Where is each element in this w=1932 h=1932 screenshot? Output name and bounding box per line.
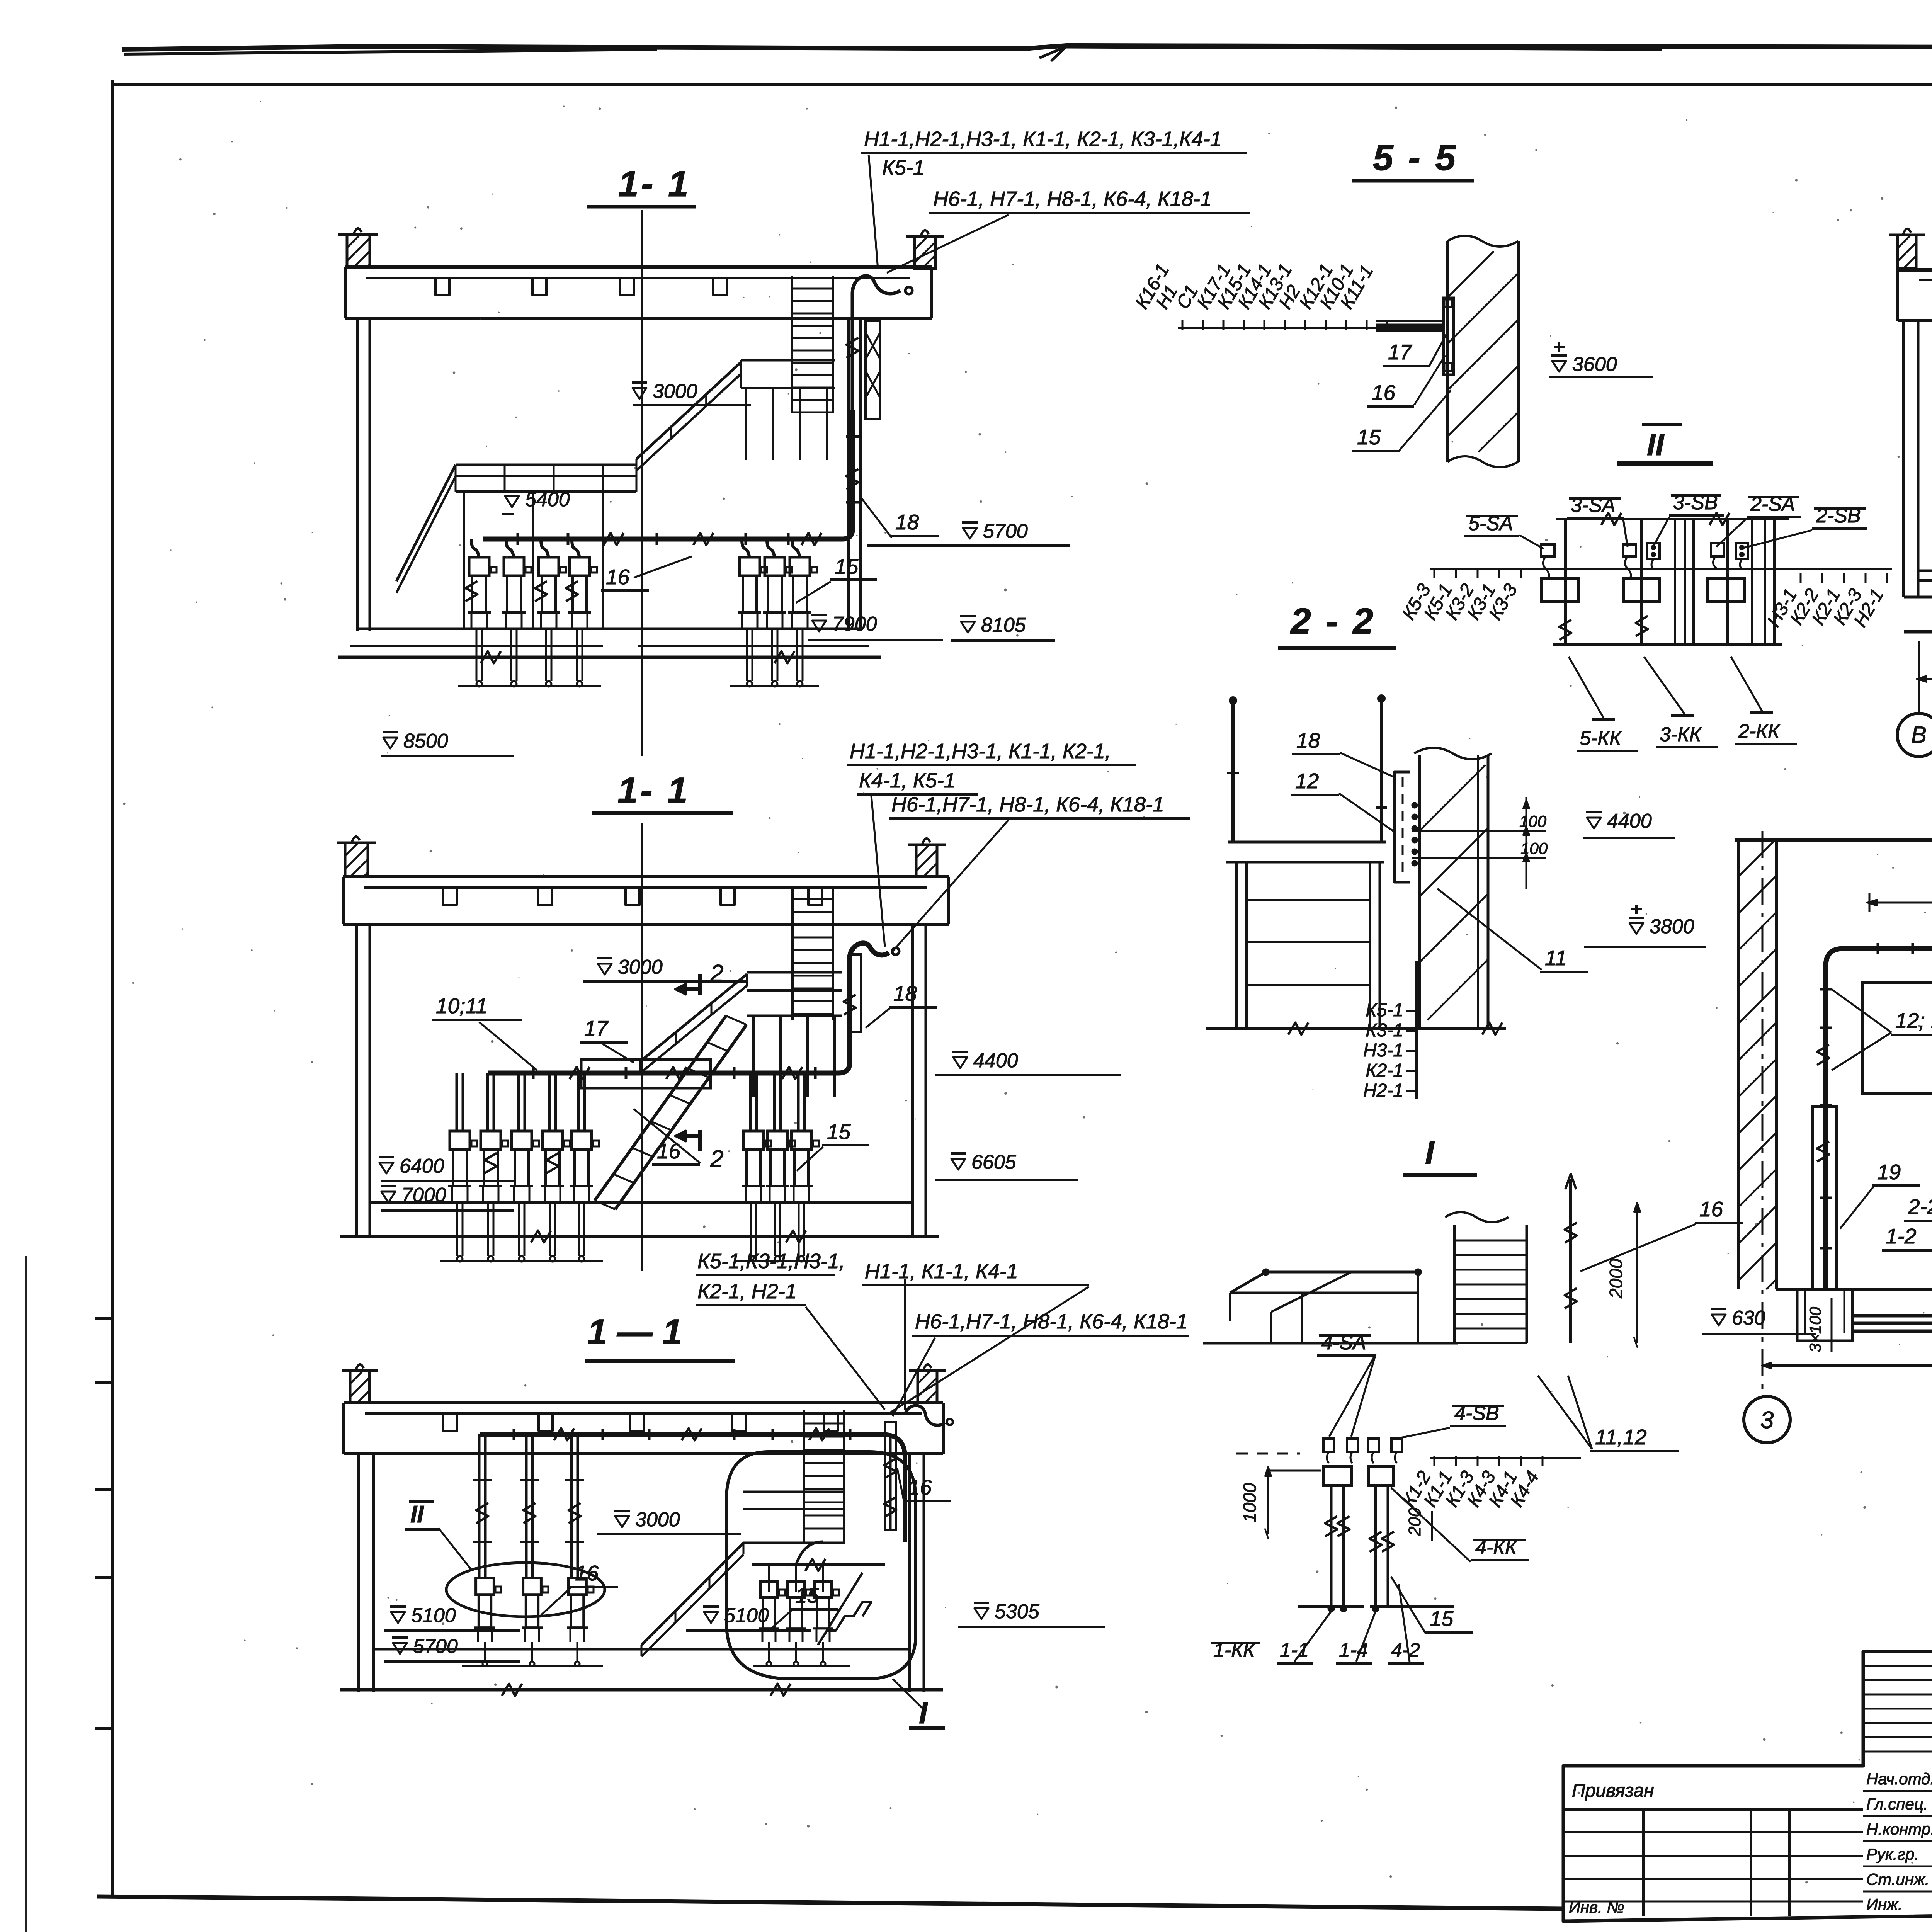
- stair ladder 3: [803, 1410, 805, 1542]
- svg-text:15: 15: [835, 554, 859, 578]
- left sub table: [1563, 1831, 1863, 1833]
- level mark 4400: [1587, 818, 1601, 828]
- level mark 4400: [953, 1057, 967, 1068]
- svg-text:2-2: 2-2: [1908, 1195, 1932, 1219]
- pump unit: [790, 557, 810, 576]
- svg-text:15: 15: [1357, 425, 1381, 449]
- pump unit: [765, 557, 785, 576]
- level mark 3600: [1552, 361, 1566, 372]
- wall pilaster (hatched): [345, 843, 368, 877]
- lower platform rails: [456, 464, 636, 466]
- bottom slab 3-3: [1904, 630, 1932, 634]
- section centerline 2: [641, 823, 643, 1271]
- svg-text:Н6-1,Н7-1, Н8-1, К6-4, К18-1: Н6-1,Н7-1, Н8-1, К6-4, К18-1: [915, 1310, 1188, 1333]
- svg-text:100: 100: [1520, 839, 1548, 857]
- switch 3-SA: [1623, 544, 1636, 556]
- pump cables right group 3: [796, 1542, 823, 1565]
- top wall line 4-4: [1735, 838, 1932, 842]
- svg-text:Н1-1,Н2-1,Н3-1, К1-1, К2-1, К3: Н1-1,Н2-1,Н3-1, К1-1, К2-1, К3-1,К4-1: [864, 128, 1222, 151]
- frame bottom line (sloped scan): [97, 1896, 1563, 1909]
- left wall 4-4 (hatched): [1737, 840, 1740, 1289]
- switch 2-SA: [1711, 543, 1724, 556]
- svg-text:4400: 4400: [1607, 810, 1652, 832]
- privyazan cell: [1563, 1808, 1863, 1811]
- svg-text:I: I: [1425, 1134, 1435, 1171]
- stray centerline mark: [904, 1279, 906, 1410]
- dim 2000 2000 600: [1869, 902, 1932, 904]
- floor line detail I: [1203, 1342, 1458, 1345]
- svg-text:3-КК: 3-КК: [1660, 723, 1702, 746]
- svg-text:6605: 6605: [971, 1151, 1017, 1173]
- middle platform rails: [741, 359, 835, 362]
- cables into pit (thick curves): [1851, 1289, 1932, 1316]
- grid bubble 3: [1744, 1396, 1790, 1443]
- level mark 630: [1712, 1315, 1726, 1325]
- svg-text:II: II: [410, 1501, 424, 1528]
- cable tray run 2 (thick): [488, 943, 889, 1073]
- wall pilaster (hatched): [1898, 235, 1916, 269]
- svg-text:2: 2: [710, 960, 723, 987]
- svg-text:18: 18: [893, 981, 917, 1005]
- svg-text:Н6-1, Н7-1, Н8-1, К6-4, К18-1: Н6-1, Н7-1, Н8-1, К6-4, К18-1: [933, 187, 1212, 211]
- level mark 5100: [704, 1612, 718, 1623]
- cable fan labels K16-1..K11-1: [1182, 320, 1184, 330]
- svg-text:5100: 5100: [411, 1604, 456, 1627]
- pump unit: [512, 1131, 532, 1150]
- svg-text:4-2: 4-2: [1391, 1639, 1420, 1662]
- dim 6000 (4-4): [1764, 1364, 1932, 1367]
- grid bubble V: [1918, 641, 1920, 714]
- svg-text:16: 16: [657, 1139, 681, 1163]
- wall duct right of section 1: [866, 321, 880, 419]
- title block outer frame: [1563, 1651, 1932, 1921]
- svg-text:3000: 3000: [618, 956, 663, 978]
- pump unit: [767, 1131, 787, 1150]
- svg-text:7900: 7900: [832, 613, 877, 635]
- pump unit: [481, 1131, 501, 1150]
- svg-text:16: 16: [606, 565, 630, 589]
- pump unit: [523, 1578, 541, 1595]
- svg-text:2-КК: 2-КК: [1738, 720, 1781, 743]
- svg-text:Н2-1: Н2-1: [1363, 1080, 1403, 1101]
- conduit risers: [1564, 519, 1567, 645]
- svg-text:К2-1: К2-1: [1366, 1060, 1403, 1081]
- ceiling cable run 3 (thick): [480, 1434, 905, 1542]
- svg-text:5700: 5700: [413, 1635, 458, 1658]
- svg-text:4400: 4400: [973, 1049, 1018, 1072]
- svg-text:5-КК: 5-КК: [1580, 727, 1622, 750]
- wall pilaster (hatched): [916, 845, 937, 877]
- svg-text:Гл.спец.: Гл.спец.: [1866, 1795, 1928, 1813]
- floor line 2: [370, 1201, 912, 1204]
- ladder (detail I): [1453, 1225, 1456, 1343]
- foundation base 2: [340, 1235, 939, 1238]
- floor line: [357, 628, 861, 630]
- dashed line left: [1236, 1453, 1300, 1455]
- executors table: [1863, 1790, 1932, 1792]
- level mark 5100: [391, 1612, 405, 1623]
- pump unit: [740, 557, 760, 576]
- svg-text:Ст.инж.: Ст.инж.: [1866, 1870, 1930, 1888]
- suspended cable risers: [1231, 701, 1235, 842]
- svg-text:Н1-1,Н2-1,Н3-1, К1-1, К2-1,: Н1-1,Н2-1,Н3-1, К1-1, К2-1,: [850, 740, 1111, 763]
- dim 6000+6000: [1919, 678, 1932, 680]
- main cable 4-4 (thick): [1826, 949, 1932, 1289]
- svg-text:7000: 7000: [401, 1184, 446, 1206]
- svg-text:15: 15: [1430, 1607, 1454, 1631]
- svg-text:5400: 5400: [525, 488, 570, 511]
- level mark 3800: [1629, 923, 1643, 934]
- pump unit: [476, 1578, 494, 1595]
- left wall 3-3: [1902, 321, 1905, 597]
- pump unit: [743, 1131, 764, 1150]
- svg-text:12; 13: 12; 13: [1895, 1009, 1932, 1032]
- perspective slants: [1271, 1272, 1351, 1312]
- cable pairs down to pumps: [478, 1434, 481, 1578]
- svg-text:17: 17: [584, 1016, 609, 1040]
- svg-text:К4-1, К5-1: К4-1, К5-1: [859, 769, 956, 792]
- floor 4-4: [1776, 1288, 1932, 1291]
- svg-text:18: 18: [895, 510, 919, 534]
- railing diagonal 2: [640, 974, 747, 1061]
- svg-text:3800: 3800: [1650, 915, 1694, 938]
- switch row detail I: [1323, 1439, 1334, 1452]
- floor line detail: [1206, 1027, 1506, 1030]
- ceiling slab: [345, 265, 932, 269]
- svg-text:I: I: [919, 1696, 928, 1730]
- wall opening 1: [1862, 983, 1932, 1093]
- railing diagonal 3: [641, 1543, 743, 1645]
- svg-text:1000: 1000: [1240, 1483, 1260, 1522]
- cable tray rectangle: [581, 1060, 711, 1088]
- ceiling slab: [343, 875, 949, 878]
- section cut mark 2 upper: [698, 974, 702, 995]
- starter boxes detail I: [1323, 1466, 1351, 1485]
- equipment rack frame: [1228, 841, 1386, 844]
- vertical cable with dim 2000: [1569, 1179, 1572, 1343]
- pump unit: [571, 1131, 592, 1150]
- svg-text:12: 12: [1295, 769, 1319, 793]
- bottom line detail II: [1553, 643, 1782, 646]
- svg-text:19: 19: [1877, 1160, 1901, 1184]
- oval mark II group: [446, 1563, 605, 1617]
- channel beside ladder: [850, 954, 861, 1032]
- switch 2-SB: [1736, 543, 1748, 559]
- floor marks detail I: [1298, 1605, 1364, 1608]
- pump unit: [543, 1131, 563, 1150]
- svg-text:16: 16: [1372, 381, 1396, 405]
- platform perspective top: [1266, 1271, 1418, 1274]
- level mark 5305: [975, 1608, 988, 1619]
- svg-text:5305: 5305: [995, 1600, 1040, 1623]
- pump unit: [539, 557, 559, 576]
- wall pilaster (hatched): [347, 235, 370, 267]
- right wall: [847, 318, 850, 631]
- svg-text:16: 16: [908, 1475, 932, 1499]
- wall pilaster (hatched): [918, 1371, 937, 1403]
- ceiling slab: [344, 1401, 943, 1404]
- frame left border: [111, 80, 114, 1898]
- svg-text:II: II: [1647, 427, 1665, 462]
- svg-text:10;11: 10;11: [436, 994, 488, 1018]
- pump unit: [787, 1582, 804, 1597]
- pump unit: [815, 1582, 832, 1597]
- railing (diagonal): [636, 362, 741, 459]
- level mark 5700: [393, 1643, 407, 1654]
- level mark 3000: [633, 388, 646, 399]
- frame top line: [112, 83, 1932, 86]
- dim 200 (detail I): [1431, 1511, 1433, 1541]
- upper revision table: [1863, 1665, 1932, 1667]
- svg-text:Н.контр.: Н.контр.: [1866, 1820, 1932, 1838]
- pump unit: [568, 1578, 587, 1595]
- level mark 8500: [383, 738, 397, 748]
- cable channel 4-4 left: [1813, 1107, 1837, 1289]
- svg-text:17: 17: [1388, 340, 1413, 364]
- wall bracket with cables: [1444, 298, 1454, 375]
- svg-text:3×100: 3×100: [1806, 1306, 1824, 1352]
- svg-text:1- 1: 1- 1: [618, 163, 691, 204]
- svg-text:Н6-1,Н7-1, Н8-1, К6-4, К18-1: Н6-1,Н7-1, Н8-1, К6-4, К18-1: [891, 793, 1164, 816]
- svg-text:Н3-1: Н3-1: [1363, 1040, 1403, 1061]
- left wall: [356, 318, 359, 631]
- fold tick marks on left border: [95, 1317, 113, 1320]
- floor 3-3: [1918, 570, 1932, 572]
- pump unit: [760, 1582, 777, 1597]
- svg-text:В: В: [1911, 722, 1927, 748]
- cable shelf top line: [1556, 518, 1789, 520]
- svg-text:1- 1: 1- 1: [617, 770, 690, 811]
- svg-text:11: 11: [1545, 946, 1567, 970]
- pump unit: [504, 557, 524, 576]
- svg-text:2: 2: [710, 1146, 723, 1172]
- svg-text:1-2: 1-2: [1886, 1224, 1917, 1248]
- svg-text:К3-1: К3-1: [1366, 1020, 1403, 1041]
- switch 3-SB: [1647, 543, 1660, 559]
- left wall: [355, 924, 358, 1236]
- svg-text:3: 3: [1760, 1407, 1774, 1434]
- cable pit: [1797, 1289, 1852, 1341]
- platform support posts: [745, 388, 747, 460]
- wall pilaster (hatched): [350, 1371, 369, 1403]
- level mark 3000: [598, 964, 612, 975]
- platform 3: [743, 1491, 845, 1493]
- floor 3: [374, 1648, 909, 1651]
- svg-text:Привязан: Привязан: [1572, 1781, 1654, 1801]
- fan labels K5-3..K3-3 (left of II): [1434, 568, 1435, 578]
- stair ladder: [791, 276, 793, 413]
- level mark 7000: [381, 1192, 395, 1202]
- leaders to section 3: [806, 1307, 885, 1410]
- mounting bracket C-channel: [1395, 772, 1410, 882]
- svg-text:К5-1: К5-1: [1366, 1000, 1403, 1020]
- cable channel beside ladder 3: [885, 1422, 896, 1530]
- svg-text:15: 15: [827, 1120, 851, 1144]
- svg-text:5100: 5100: [724, 1604, 769, 1627]
- pump unit: [450, 1131, 470, 1150]
- svg-text:К5-1,К3-1,Н3-1,: К5-1,К3-1,Н3-1,: [697, 1250, 845, 1273]
- pump unit: [791, 1131, 811, 1150]
- svg-text:Н1-1, К1-1, К4-1: Н1-1, К1-1, К4-1: [865, 1260, 1018, 1283]
- svg-text:1 — 1: 1 — 1: [587, 1312, 682, 1352]
- svg-text:Нач.отд.: Нач.отд.: [1866, 1770, 1932, 1788]
- svg-text:16: 16: [575, 1561, 599, 1585]
- section cut mark 2 lower: [698, 1130, 702, 1151]
- svg-text:Инж.: Инж.: [1866, 1895, 1903, 1913]
- svg-text:Инв. №: Инв. №: [1569, 1898, 1624, 1916]
- svg-text:5 - 5: 5 - 5: [1373, 137, 1458, 178]
- svg-text:630: 630: [1732, 1307, 1765, 1329]
- cable tray run (thick cable): [483, 410, 852, 539]
- svg-text:К5-1: К5-1: [882, 156, 925, 179]
- level mark 5400: [505, 496, 519, 507]
- floor line through detail II: [1430, 568, 1892, 570]
- svg-text:6400: 6400: [400, 1155, 444, 1177]
- svg-text:3600: 3600: [1572, 353, 1617, 376]
- svg-text:Рук.гр.: Рук.гр.: [1866, 1845, 1919, 1863]
- stair flight with treads: [595, 1016, 726, 1201]
- fan base line: [1178, 327, 1444, 329]
- section centerline: [641, 210, 643, 756]
- starter boxes II: [1542, 578, 1578, 601]
- svg-text:100: 100: [1519, 812, 1547, 830]
- svg-text:3000: 3000: [635, 1509, 680, 1531]
- svg-text:8500: 8500: [403, 730, 448, 752]
- left wall 3: [357, 1454, 360, 1692]
- svg-text:18: 18: [1296, 728, 1320, 752]
- svg-text:15: 15: [795, 1583, 819, 1607]
- platform legs: [1301, 1293, 1303, 1343]
- level mark 5700: [963, 528, 977, 539]
- fan labels H3-1..H2-1 (right of II): [1800, 573, 1802, 583]
- level mark 6400: [379, 1163, 393, 1173]
- cable riser to ceiling with hook: [852, 276, 900, 410]
- svg-text:8105: 8105: [981, 614, 1026, 636]
- label I with leader: [893, 1679, 925, 1711]
- scan left edge line: [25, 1256, 27, 1932]
- grid centerline 3: [1762, 831, 1764, 1395]
- ceiling slab: [1898, 268, 1932, 271]
- fan labels K1-2..K4-4: [1434, 1456, 1435, 1466]
- leader lines to cable entry: [869, 155, 878, 269]
- dim 1000 (detail I): [1267, 1471, 1269, 1534]
- lower railing diagonal: [396, 465, 456, 581]
- wall pilaster (hatched): [915, 236, 935, 269]
- foundation base line: [338, 656, 881, 659]
- wall with hatch (detail): [1418, 755, 1421, 1029]
- foundation base 3: [340, 1688, 943, 1692]
- switch 5-SA: [1541, 544, 1554, 556]
- svg-text:5700: 5700: [983, 520, 1028, 543]
- small stair steps right: [818, 1602, 871, 1645]
- level mark 7900: [812, 621, 826, 631]
- svg-text:1-1: 1-1: [1280, 1639, 1309, 1662]
- right wall 3: [908, 1454, 911, 1692]
- svg-text:200: 200: [1405, 1507, 1424, 1536]
- dim 100/100: [1412, 830, 1546, 832]
- level mark 8105: [961, 622, 975, 633]
- svg-text:11,12: 11,12: [1595, 1425, 1647, 1449]
- svg-text:К2-1, Н2-1: К2-1, Н2-1: [697, 1280, 797, 1303]
- svg-text:16: 16: [1699, 1197, 1723, 1221]
- svg-text:3000: 3000: [653, 380, 697, 403]
- middle platform 2: [747, 971, 842, 974]
- svg-text:2 - 2: 2 - 2: [1290, 601, 1376, 642]
- level mark 3000: [615, 1516, 629, 1527]
- level mark 6605: [951, 1159, 965, 1170]
- wall (hatched) 5-5: [1446, 241, 1449, 462]
- stair ladder 2: [791, 886, 794, 1020]
- cables down detail I: [1330, 1485, 1333, 1607]
- top sketchy edge line: [122, 43, 1932, 49]
- pump unit: [469, 557, 489, 576]
- loop blob I around right assembly: [726, 1452, 916, 1679]
- svg-text:2000: 2000: [1606, 1259, 1626, 1299]
- right wall: [911, 924, 914, 1236]
- cable list K5-1..H2-1: [1415, 961, 1418, 1099]
- pump unit: [570, 557, 590, 576]
